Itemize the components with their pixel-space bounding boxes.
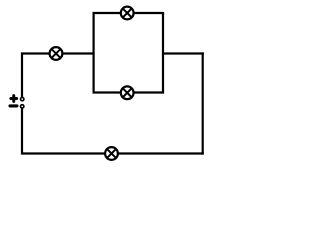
wire: bottom horizontal (through lamp L4) [21,152,204,154]
wire: parallel block left vertical (node A rail) [92,13,94,93]
wire: parallel block bottom branch (through lamp L3) [93,91,165,93]
battery BT1: + terminal (upper open circle) [21,97,24,100]
wire: middle-right horizontal (parallel block to right rail) [163,52,204,54]
battery BT1: minus polarity mark [10,104,17,107]
wire: top-left horizontal (left rail to parallel block, through lamp L1) [21,52,94,54]
wire: parallel block top branch (through lamp L2) [93,12,165,14]
battery BT1: - terminal (lower open circle) [21,105,24,108]
lamp L3 (bottom parallel branch lamp) [121,86,134,99]
lamp L1 (left series lamp) [50,47,63,60]
wire: left rail lower segment (battery - terminal down to bottom-left corner) [21,108,23,154]
wire: right rail vertical [202,52,204,154]
wire: parallel block right vertical (node B rail) [162,13,164,93]
lamp L4 (bottom series lamp) [105,147,118,160]
wire: left rail upper segment (top-left corner down to battery + terminal) [21,53,23,98]
lamp L2 (top parallel branch lamp) [121,7,134,20]
battery BT1: plus polarity mark [11,96,17,102]
